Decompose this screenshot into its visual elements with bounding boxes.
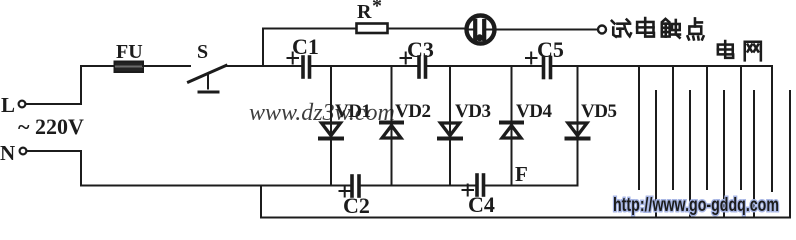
capacitor C1 xyxy=(301,57,305,77)
grid electrode up 2 xyxy=(689,91,691,218)
svg-text:C1: C1 xyxy=(292,34,319,59)
terminal N xyxy=(20,148,27,155)
svg-text:FU: FU xyxy=(116,41,143,63)
svg-text:*: * xyxy=(372,0,382,17)
svg-text:C3: C3 xyxy=(407,37,434,62)
svg-text:VD2: VD2 xyxy=(395,101,430,122)
svg-text:VD5: VD5 xyxy=(581,101,616,122)
grid electrode down 2 xyxy=(672,66,674,189)
wire C2 to C4 xyxy=(361,185,475,187)
svg-text:VD3: VD3 xyxy=(455,101,490,122)
wire bottom rail left xyxy=(81,185,350,187)
wire R to lamp xyxy=(388,28,466,30)
svg-text:http://www.go-gddq.com: http://www.go-gddq.com xyxy=(613,195,779,216)
wire R branch left xyxy=(263,28,356,30)
label 试电触点 xyxy=(612,18,704,39)
wire C1 to C3 xyxy=(311,65,417,67)
wire lamp to test terminal xyxy=(494,29,598,31)
wire riser to fuse xyxy=(81,65,114,67)
svg-text:~ 220V: ~ 220V xyxy=(18,114,84,139)
grid electrode down 3 xyxy=(706,66,708,189)
terminal test contact xyxy=(598,26,606,34)
switch S actuator xyxy=(207,75,209,89)
wire N terminal to bottom rail xyxy=(27,151,82,186)
svg-text:L: L xyxy=(1,93,15,117)
wire VD2 vertical xyxy=(391,66,393,186)
grid electrode up 1 xyxy=(655,91,657,218)
svg-text:C4: C4 xyxy=(468,192,495,217)
capacitor C5 xyxy=(542,58,546,78)
terminal L xyxy=(19,101,26,108)
grid electrode up 4 xyxy=(753,91,755,218)
capacitor C3 xyxy=(417,57,421,77)
neon lamp xyxy=(467,16,495,44)
fuse FU xyxy=(115,62,144,73)
grid electrode down 1 xyxy=(638,66,640,189)
diode VD2 xyxy=(381,121,402,125)
wire C3 to C5 xyxy=(427,65,541,67)
svg-text:C5: C5 xyxy=(537,37,564,62)
label 电网 xyxy=(718,41,761,60)
grid electrode up 5 xyxy=(789,91,791,218)
wire fuse to switch xyxy=(143,65,190,67)
wire bottom output rail xyxy=(261,217,790,219)
wire switch to C1 xyxy=(226,65,301,67)
svg-text:www.dz3w.com: www.dz3w.com xyxy=(249,100,395,126)
resistor R xyxy=(357,24,388,34)
wire riser to R branch xyxy=(262,29,264,67)
wire VD4 vertical xyxy=(511,66,513,186)
svg-text:VD4: VD4 xyxy=(516,101,552,122)
capacitor C4 xyxy=(475,175,479,195)
grid top rail end xyxy=(771,66,773,191)
wire C5 to grid xyxy=(552,65,772,67)
diode VD5 xyxy=(568,123,587,136)
svg-text:F: F xyxy=(515,162,528,186)
capacitor C2 xyxy=(350,176,354,196)
diode VD1 xyxy=(322,123,341,136)
switch S blade xyxy=(189,66,227,83)
grid electrode down 4 xyxy=(740,66,742,189)
svg-text:N: N xyxy=(0,141,15,165)
diode VD4 xyxy=(501,121,522,125)
wire output riser xyxy=(260,186,262,218)
wire C4 to VD5 xyxy=(486,185,578,187)
wire VD3 vertical xyxy=(449,66,451,186)
diode VD3 xyxy=(441,123,460,136)
grid electrode up 3 xyxy=(723,91,725,218)
wire L terminal to fuse riser xyxy=(26,66,82,104)
svg-text:C2: C2 xyxy=(343,193,370,218)
svg-text:S: S xyxy=(197,41,208,63)
wire VD1 vertical xyxy=(330,66,332,186)
wire VD5 vertical xyxy=(577,66,579,186)
svg-text:R: R xyxy=(357,1,372,23)
